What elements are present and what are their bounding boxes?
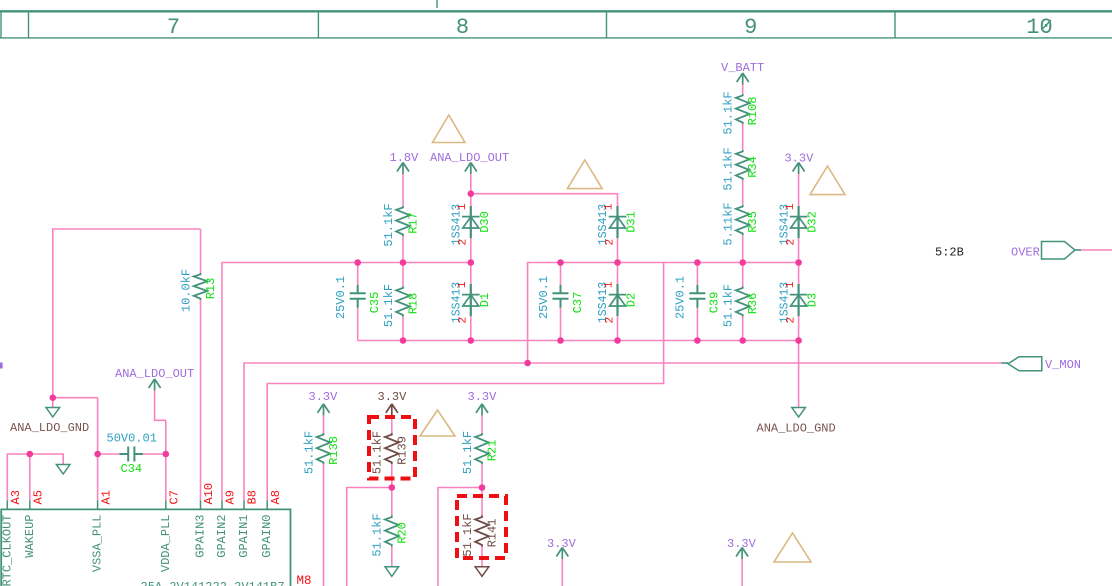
- junction V_MON tap: [524, 360, 531, 367]
- svg-text:C37: C37: [571, 292, 585, 314]
- svg-text:1: 1: [785, 203, 797, 210]
- junction D30 top: [468, 190, 475, 197]
- diode D30: [451, 203, 492, 245]
- wire C34 row: [7, 454, 63, 500]
- svg-text:GPAIN0: GPAIN0: [260, 515, 274, 558]
- resistor R34: [722, 147, 761, 190]
- svg-text:D30: D30: [478, 211, 492, 233]
- wire 3.3V bottom a: [561, 559, 563, 586]
- wire R13 to GPAIN3 pin: [200, 300, 202, 500]
- wire ANA_LDO_OUT column: [470, 174, 472, 341]
- junction R141 top: [479, 484, 486, 491]
- svg-text:D32: D32: [806, 211, 820, 233]
- svg-text:5:2B: 5:2B: [935, 246, 964, 260]
- wire OVER net: [1081, 249, 1112, 251]
- power arrow 3.3V R21: [476, 404, 488, 416]
- svg-text:C7: C7: [168, 490, 182, 504]
- wire 3.3V bottom b: [741, 559, 743, 586]
- capacitor C35: [334, 276, 382, 319]
- svg-text:R17: R17: [407, 212, 421, 234]
- svg-text:D31: D31: [625, 211, 639, 233]
- junction R17-R18: [400, 259, 407, 266]
- capacitor C39: [674, 276, 722, 319]
- svg-text:2: 2: [785, 239, 797, 246]
- svg-text:A1: A1: [99, 490, 113, 504]
- svg-text:V_BATT: V_BATT: [721, 61, 764, 75]
- IC U? body outline: [1, 509, 290, 586]
- svg-text:R18: R18: [407, 293, 421, 315]
- svg-text:10: 10: [1026, 15, 1052, 40]
- power arrow ANA_LDO_OUT top: [465, 163, 477, 175]
- svg-text:51.1kF: 51.1kF: [722, 91, 736, 134]
- svg-text:A10: A10: [202, 483, 216, 505]
- svg-text:2: 2: [604, 239, 616, 246]
- svg-text:5.11kF: 5.11kF: [722, 202, 736, 245]
- ground ANA_LDO_GND right: [792, 408, 806, 418]
- svg-text:1.8V: 1.8V: [390, 151, 420, 165]
- svg-text:2: 2: [785, 317, 797, 324]
- svg-text:3.3V: 3.3V: [378, 390, 408, 404]
- wire hook left: [347, 488, 392, 586]
- svg-text:2: 2: [458, 317, 470, 324]
- svg-text:OVER: OVER: [1011, 246, 1040, 260]
- svg-text:51.1kF: 51.1kF: [382, 203, 396, 246]
- wire V_MON net: [244, 363, 1002, 500]
- capacitor C34: [107, 432, 157, 476]
- svg-text:R141: R141: [486, 519, 500, 548]
- IC pin GPAIN2 (A9): [215, 490, 238, 558]
- wire C35 column: [357, 263, 359, 341]
- svg-text:VDDA_PLL: VDDA_PLL: [159, 515, 173, 573]
- marker triangle top right: [810, 166, 845, 195]
- svg-text:M8: M8: [297, 574, 312, 586]
- junction R18 bottom: [400, 337, 407, 344]
- svg-text:RTC_CLKOUT: RTC_CLKOUT: [0, 515, 14, 586]
- resistor R18: [382, 284, 421, 327]
- resistor R17: [382, 203, 421, 246]
- svg-text:R35: R35: [746, 211, 760, 233]
- IC pin GPAIN3 (A10): [194, 483, 217, 558]
- power arrow 3.3V bottom a: [556, 548, 568, 560]
- wire D32-D3 column: [798, 174, 800, 408]
- diode D2: [597, 281, 638, 323]
- resistor R36: [722, 284, 761, 327]
- svg-text:GPAIN3: GPAIN3: [194, 515, 208, 558]
- svg-text:1: 1: [457, 281, 469, 288]
- zone number 10: [1026, 15, 1052, 40]
- junction D32-D3: [795, 259, 802, 266]
- junction C34 left: [94, 451, 101, 458]
- svg-text:R21: R21: [486, 440, 500, 462]
- svg-text:25V0.1: 25V0.1: [537, 276, 551, 319]
- wire bus row Y1 left: [222, 263, 471, 501]
- junction D2 bottom: [614, 337, 621, 344]
- off-page connector OVER: [1011, 242, 1081, 260]
- wire bus row Y1 right: [528, 263, 799, 364]
- svg-text:C34: C34: [121, 462, 143, 476]
- junction R35-R36: [739, 259, 746, 266]
- junction C35 top: [354, 259, 361, 266]
- wire R138 column: [323, 415, 325, 586]
- svg-text:A9: A9: [224, 490, 238, 504]
- wire A5 pin: [29, 454, 31, 500]
- svg-text:50V0.01: 50V0.01: [107, 432, 157, 446]
- resistor R20: [371, 513, 410, 556]
- svg-text:GPAIN1: GPAIN1: [237, 515, 251, 558]
- IC pin GPAIN0 (A8): [260, 490, 283, 558]
- svg-text:R139: R139: [395, 436, 409, 465]
- svg-text:3.3V: 3.3V: [727, 537, 757, 551]
- svg-text:7: 7: [167, 15, 180, 40]
- marker triangle bottom: [774, 533, 811, 562]
- ground below R20: [385, 567, 399, 577]
- svg-text:51.1kF: 51.1kF: [722, 284, 736, 327]
- selection highlight box R139: [369, 417, 415, 479]
- svg-text:D3: D3: [806, 293, 820, 307]
- wire GPAIN0 row: [267, 263, 663, 501]
- wire C39 column: [696, 263, 698, 341]
- svg-text:1: 1: [604, 203, 616, 210]
- resistor R21: [461, 431, 500, 474]
- ground ANA_LDO_GND left: [46, 408, 60, 418]
- capacitor C37: [537, 276, 585, 319]
- svg-text:51.1kF: 51.1kF: [371, 513, 385, 556]
- svg-text:51.1kF: 51.1kF: [382, 284, 396, 327]
- junction D30-D1: [468, 259, 475, 266]
- resistor R35: [722, 202, 761, 245]
- svg-text:ANA_LDO_GND: ANA_LDO_GND: [10, 421, 89, 435]
- junction C37 top: [557, 259, 564, 266]
- IC pin GPAIN1 (B8): [237, 490, 260, 558]
- cut net label at left edge: [0, 363, 3, 369]
- sheet border frame: [0, 0, 1112, 38]
- svg-text:3.3V: 3.3V: [547, 537, 577, 551]
- power arrow 1.8V: [397, 163, 409, 175]
- svg-text:1: 1: [457, 203, 469, 210]
- wire 1.8V column: [402, 174, 404, 341]
- resistor R108: [722, 91, 761, 134]
- svg-text:51.1kF: 51.1kF: [461, 431, 475, 474]
- svg-text:V_MON: V_MON: [1045, 358, 1081, 372]
- svg-text:C39: C39: [708, 292, 722, 314]
- svg-text:GPAIN2: GPAIN2: [215, 515, 229, 558]
- off-page connector V_MON: [1002, 357, 1082, 372]
- svg-text:R13: R13: [204, 278, 218, 300]
- junction C39 bottom: [694, 337, 701, 344]
- svg-text:51.1kF: 51.1kF: [302, 431, 316, 474]
- IC pin VDDA_PLL (C7): [159, 490, 182, 572]
- svg-text:1: 1: [604, 281, 616, 288]
- svg-text:A5: A5: [32, 490, 46, 504]
- svg-text:R20: R20: [395, 522, 409, 544]
- svg-text:WAKEUP: WAKEUP: [23, 515, 37, 558]
- resistor R141 selected: [461, 513, 500, 556]
- wire R13 top: [200, 229, 202, 273]
- svg-text:R138: R138: [327, 436, 341, 465]
- diode D31: [597, 203, 638, 245]
- resistor R139 selected: [371, 431, 410, 474]
- diode D1: [451, 281, 492, 323]
- svg-text:C35: C35: [368, 292, 382, 314]
- wire hook right: [438, 488, 482, 586]
- wire C37 column: [560, 263, 562, 341]
- svg-text:R36: R36: [746, 293, 760, 315]
- marker triangle mid: [567, 160, 602, 189]
- svg-text:51.1kF: 51.1kF: [722, 147, 736, 190]
- wire D31-D2 column: [617, 238, 619, 341]
- wire VSSA_PLL column: [97, 398, 99, 501]
- svg-text:2: 2: [458, 239, 470, 246]
- wire C34 right lead: [143, 420, 166, 500]
- svg-text:A3: A3: [9, 490, 23, 504]
- svg-text:25V0.1: 25V0.1: [334, 276, 348, 319]
- svg-text:A8: A8: [269, 490, 283, 504]
- svg-text:8: 8: [456, 15, 469, 40]
- power arrow 3.3V bottom b: [736, 548, 748, 560]
- wire R21-R141 column: [481, 415, 483, 567]
- svg-text:3.3V: 3.3V: [468, 390, 498, 404]
- junction R20 top: [389, 484, 396, 491]
- svg-text:3.3V: 3.3V: [309, 390, 339, 404]
- wire ANA_LDO_OUT jog: [155, 390, 166, 420]
- resistor R13: [179, 269, 218, 312]
- svg-text:2: 2: [604, 317, 616, 324]
- junction C39 top: [694, 259, 701, 266]
- wire ANA_LDO_GND left loop: [53, 229, 201, 408]
- svg-text:25A.2V141222.2V141B7: 25A.2V141222.2V141B7: [141, 580, 285, 586]
- svg-text:9: 9: [744, 15, 757, 40]
- wire top link D30-D31: [471, 194, 618, 206]
- power arrow 3.3V R138: [318, 404, 330, 416]
- power arrow 3.3V R139 selected: [386, 404, 398, 416]
- power arrow V_BATT: [737, 73, 749, 85]
- junction ANA_LDO_GND node: [50, 394, 57, 401]
- diode D3: [778, 281, 819, 323]
- wire V_BATT column: [742, 84, 744, 341]
- junction D1 bottom: [468, 337, 475, 344]
- resistor R138: [302, 431, 341, 474]
- ground below C34 row: [56, 465, 70, 475]
- marker triangle mid bottom: [420, 410, 455, 436]
- svg-text:R34: R34: [746, 156, 760, 178]
- power arrow ANA_LDO_OUT left: [149, 379, 161, 391]
- svg-text:1: 1: [785, 281, 797, 288]
- junction R36 bottom: [739, 337, 746, 344]
- svg-text:ANA_LDO_GND: ANA_LDO_GND: [757, 422, 836, 436]
- power arrow 3.3V top: [793, 163, 805, 175]
- IC pin VSSA_PLL (A1): [91, 490, 114, 572]
- selection highlight box R141: [457, 496, 506, 558]
- IC pin RTC_CLKOUT (A3): [0, 490, 23, 586]
- marker triangle top left: [433, 115, 466, 143]
- junction A5 tap: [27, 451, 34, 458]
- ground below R141 selected: [475, 567, 489, 577]
- svg-text:D2: D2: [625, 293, 639, 307]
- wire R139-R20 column: [391, 415, 393, 567]
- junction D3 bottom: [795, 337, 802, 344]
- svg-text:3.3V: 3.3V: [785, 152, 815, 166]
- wire C34 left lead: [98, 453, 120, 455]
- svg-text:D1: D1: [478, 293, 492, 307]
- svg-text:B8: B8: [246, 490, 260, 504]
- svg-text:51.1kF: 51.1kF: [461, 513, 475, 556]
- wire bus row Y2: [358, 340, 799, 342]
- junction C37 bottom: [557, 337, 564, 344]
- junction C34 right: [163, 451, 170, 458]
- svg-text:R108: R108: [746, 97, 760, 126]
- svg-text:ANA_LDO_OUT: ANA_LDO_OUT: [430, 151, 509, 165]
- junction D31-D2: [614, 259, 621, 266]
- svg-text:10.0kF: 10.0kF: [179, 269, 193, 312]
- svg-text:VSSA_PLL: VSSA_PLL: [91, 515, 105, 573]
- IC pin WAKEUP (A5): [23, 490, 46, 558]
- svg-text:ANA_LDO_OUT: ANA_LDO_OUT: [115, 367, 194, 381]
- diode D32: [778, 203, 819, 245]
- svg-text:51.1kF: 51.1kF: [371, 431, 385, 474]
- svg-text:25V0.1: 25V0.1: [674, 276, 688, 319]
